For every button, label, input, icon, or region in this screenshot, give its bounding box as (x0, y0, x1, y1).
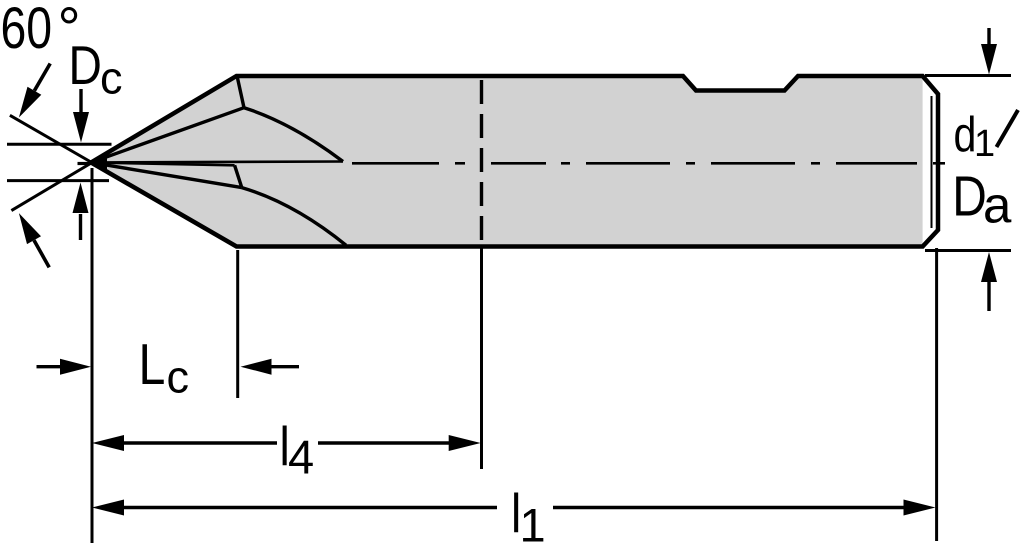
svg-text:a: a (983, 177, 1012, 234)
tool body fill (91, 76, 923, 247)
svg-text:D: D (69, 34, 102, 96)
d1 arrow down (top right) (981, 28, 997, 75)
svg-text:1: 1 (974, 123, 995, 165)
60deg arrow upper (19, 64, 50, 118)
svg-text:60: 60 (1, 0, 53, 61)
lower flute gash (235, 165, 242, 187)
tip blob (87, 154, 107, 172)
d1 bottom extension line (925, 249, 1011, 252)
centerline dash-dot (352, 162, 945, 165)
l4 dimension line left (92, 435, 277, 451)
svg-text:L: L (139, 333, 166, 397)
upper flute gash (238, 78, 245, 108)
l4 dashed line through body (480, 80, 483, 246)
l1 dimension line left (92, 500, 497, 516)
l4 dimension line right (318, 435, 481, 451)
Dc extension line lower (7, 179, 109, 182)
60deg angle line upper (10, 115, 103, 169)
60deg arrow lower (19, 213, 49, 267)
l1 right extension line vertical (935, 248, 938, 541)
Lc dimension arrow left (37, 359, 92, 375)
svg-text:1: 1 (520, 499, 546, 552)
svg-text:D: D (952, 165, 987, 229)
l1 dimension line right (553, 500, 936, 516)
lower edge horizontal (91, 163, 235, 166)
tool body outline (91, 76, 938, 247)
axis edge line (91, 162, 343, 163)
svg-text:c: c (167, 352, 190, 403)
l4 extension line below body (480, 248, 483, 469)
svg-text:d: d (954, 107, 977, 162)
Lc dimension arrow right (241, 359, 300, 375)
d1 top extension line (925, 74, 1011, 77)
Dc arrow up (73, 183, 89, 241)
shank end facet line (931, 96, 933, 228)
60deg angle line lower (11, 156, 103, 211)
Da arrow up (bottom right) (981, 252, 997, 311)
upper flute curve (244, 108, 343, 162)
lower flute curve (242, 188, 346, 246)
Dc extension line upper (7, 143, 112, 146)
svg-text:c: c (100, 53, 123, 104)
centerline left stub (78, 162, 89, 165)
lower cutting edge (91, 163, 242, 188)
svg-text:4: 4 (288, 431, 314, 484)
Lc extension line vertical (236, 250, 239, 398)
Dc arrow down (73, 89, 89, 143)
tip extension line vertical (91, 168, 94, 543)
upper cutting edge (91, 108, 244, 163)
